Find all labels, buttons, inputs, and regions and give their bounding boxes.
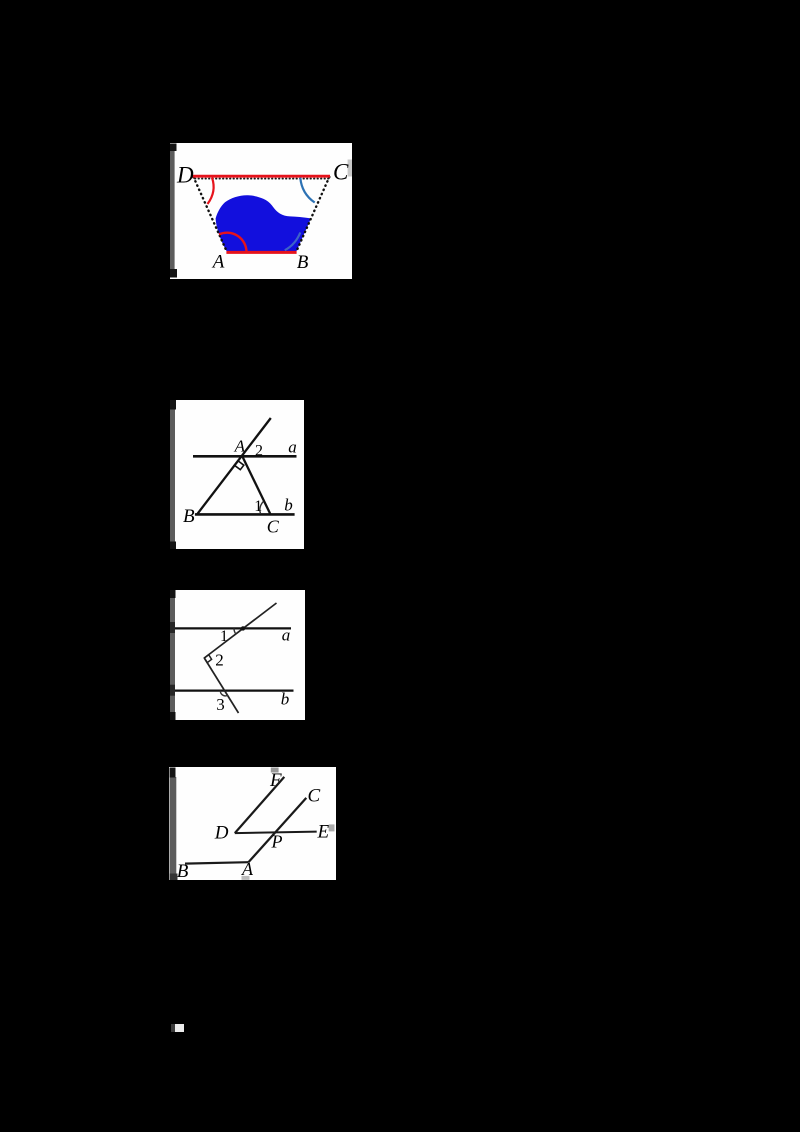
lower ray from vertex through line b (204, 658, 238, 713)
top-left corner mark (170, 144, 177, 152)
line b through B and C (195, 513, 295, 516)
panel background (170, 400, 304, 549)
line b (175, 689, 294, 691)
ray AC through P (248, 798, 306, 863)
figure 3: zigzag between parallel lines a and b (170, 590, 305, 720)
side AB (red) (226, 251, 296, 254)
svg-text:A: A (241, 859, 254, 879)
svg-text:2: 2 (215, 651, 224, 670)
angle arc at D (red) (208, 178, 214, 204)
angle 3 arc (220, 691, 228, 696)
svg-text:a: a (288, 437, 297, 456)
bottom page fragment (171, 1024, 176, 1031)
svg-text:C: C (333, 160, 349, 185)
top-left corner mark (170, 768, 176, 778)
panel background (170, 143, 352, 279)
angle 1 arc at C (260, 502, 263, 514)
svg-text:B: B (183, 506, 195, 527)
top-left corner mark (170, 400, 176, 410)
angle arc at B (blue) (285, 233, 301, 251)
svg-text:A: A (234, 437, 246, 456)
svg-text:A: A (211, 252, 225, 273)
upper ray through line a to vertex (204, 603, 276, 658)
segment BA (185, 862, 248, 863)
right angle square at vertex (204, 655, 211, 663)
top-left corner mark (170, 590, 176, 598)
dotted edge DC (195, 178, 329, 180)
ray through A and side AB (197, 418, 271, 514)
right angle mark at A (234, 461, 244, 470)
gray mark below A (242, 876, 250, 880)
bottom-left corner mark (170, 874, 178, 881)
figure 2: triangle ABC between parallel lines a and b (170, 400, 304, 549)
svg-text:a: a (282, 625, 291, 644)
left shadow bar (170, 777, 177, 874)
dot at crossing on line a (241, 626, 245, 630)
bottom-left corner mark (170, 712, 176, 720)
svg-text:B: B (177, 861, 189, 880)
panel background (170, 590, 305, 720)
figure 1: trapezoid ABCD panel (170, 143, 352, 279)
svg-text:D: D (214, 823, 229, 844)
angle arc at C (blue) (300, 178, 314, 203)
angle arc at A (red) (219, 233, 247, 252)
right edge gray mark (348, 160, 352, 177)
svg-text:b: b (281, 690, 290, 709)
side AC (242, 456, 270, 514)
dotted edge CB (296, 177, 329, 252)
bottom page fragment white (175, 1024, 184, 1031)
svg-text:1: 1 (220, 628, 228, 645)
ray DF (235, 777, 284, 833)
svg-text:B: B (297, 252, 309, 273)
blue shaded region (216, 195, 311, 251)
line a (193, 455, 297, 458)
svg-text:2: 2 (255, 442, 263, 459)
bottom-left corner mark (170, 542, 176, 550)
ray DE (235, 832, 317, 834)
svg-text:C: C (267, 517, 280, 537)
svg-text:P: P (271, 832, 283, 852)
left bar dark mark at line a (170, 622, 175, 633)
svg-text:C: C (308, 786, 321, 807)
panel background (169, 767, 336, 880)
left bar dark mark at line b (170, 685, 175, 696)
gray mark above F (271, 768, 279, 773)
left shadow bar (170, 597, 175, 713)
dotted edge DA (194, 177, 227, 252)
svg-text:b: b (284, 496, 293, 515)
left shadow bar (170, 407, 175, 545)
gray mark right of E (329, 824, 335, 831)
svg-text:3: 3 (216, 695, 225, 714)
svg-text:E: E (317, 821, 330, 842)
line a (175, 627, 291, 629)
svg-text:D: D (176, 163, 194, 188)
left shadow bar (170, 150, 175, 270)
figure 4: lines DF, DE, AC, BA with point P (169, 767, 336, 880)
svg-text:F: F (269, 770, 282, 791)
angle 1 arc (234, 628, 236, 634)
side DC (red) (193, 175, 330, 178)
bottom-left corner mark (170, 269, 177, 278)
svg-text:1: 1 (254, 498, 262, 515)
